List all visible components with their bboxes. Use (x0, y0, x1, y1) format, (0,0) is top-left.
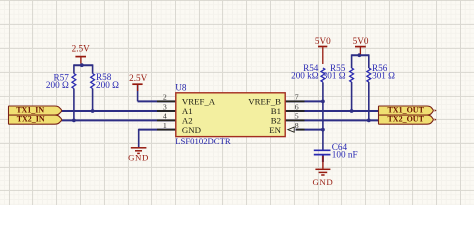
svg-text:TX2_IN: TX2_IN (17, 114, 45, 123)
svg-text:200 Ω: 200 Ω (46, 80, 69, 90)
svg-text:301 Ω: 301 Ω (372, 70, 395, 80)
svg-text:4: 4 (163, 112, 167, 121)
svg-text:2.5V: 2.5V (72, 44, 90, 54)
svg-text:5: 5 (295, 112, 299, 121)
svg-text:7: 7 (295, 93, 299, 102)
svg-text:1: 1 (163, 121, 167, 130)
svg-text:VREF_A: VREF_A (182, 97, 216, 107)
svg-text:VREF_B: VREF_B (248, 97, 281, 107)
svg-text:TX1_OUT: TX1_OUT (387, 106, 424, 115)
svg-text:LSF0102DCTR: LSF0102DCTR (175, 136, 231, 146)
svg-text:100 nF: 100 nF (332, 150, 358, 160)
svg-text:5V0: 5V0 (353, 36, 369, 46)
svg-text:6: 6 (295, 102, 299, 111)
svg-text:GND: GND (312, 177, 333, 187)
svg-text:200 kΩ: 200 kΩ (291, 70, 319, 80)
svg-text:3: 3 (163, 102, 167, 111)
svg-text:2.5V: 2.5V (129, 73, 147, 83)
svg-text:8: 8 (295, 121, 299, 130)
svg-text:TX1_IN: TX1_IN (16, 106, 44, 115)
svg-text:TX2_OUT: TX2_OUT (387, 115, 424, 124)
svg-text:200 Ω: 200 Ω (96, 80, 119, 90)
svg-text:GND: GND (182, 125, 201, 135)
svg-text:2: 2 (163, 93, 167, 102)
svg-text:U8: U8 (175, 82, 187, 92)
svg-text:301 Ω: 301 Ω (323, 70, 346, 80)
svg-text:5V0: 5V0 (315, 36, 331, 46)
svg-text:GND: GND (128, 152, 149, 162)
svg-text:EN: EN (269, 125, 281, 135)
